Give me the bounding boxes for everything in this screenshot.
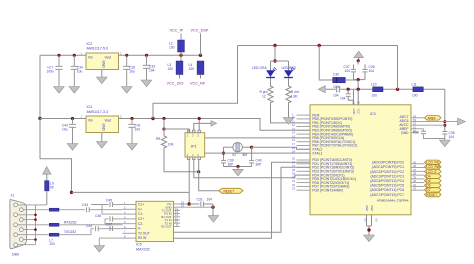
wire AVCC filter to rail	[357, 80, 359, 90]
node AVCC arrow junction	[443, 120, 446, 123]
svg-text:RESET: RESET	[426, 193, 437, 197]
resistor R9 10K pullup	[156, 119, 174, 150]
node LED branch on top loop	[273, 44, 276, 47]
wire C30 branch drop	[319, 46, 333, 81]
capacitor C39 30P	[221, 159, 234, 167]
svg-text:50: 50	[413, 129, 416, 133]
node 3V3 rail riser to top loop	[151, 117, 154, 120]
wire IC4 GND pin	[101, 133, 103, 142]
svg-text:AMS1117-5.0: AMS1117-5.0	[87, 47, 108, 51]
svg-text:30P: 30P	[228, 162, 235, 166]
svg-text:31: 31	[292, 179, 295, 183]
node C31 ground junction	[211, 206, 214, 209]
MCU left stubs port B	[297, 115, 311, 153]
power arrow VCC right	[211, 121, 217, 127]
ground below C31	[208, 216, 219, 223]
svg-text:MAX232: MAX232	[136, 247, 150, 251]
ground below IC4	[97, 142, 108, 149]
node 5V rail bead column	[179, 54, 182, 57]
svg-text:TXD232: TXD232	[64, 230, 76, 234]
power arrow AVCC rail left end	[318, 86, 325, 93]
node row1 input junction C7	[57, 54, 60, 57]
capacitor C37 104	[344, 64, 357, 79]
resistor R5 green LED	[260, 85, 274, 105]
svg-text:32: 32	[292, 183, 295, 187]
svg-text:C44: C44	[86, 224, 92, 228]
capacitor C40 30P	[249, 159, 262, 167]
svg-text:GND: GND	[102, 124, 106, 132]
svg-text:100: 100	[49, 242, 55, 246]
wire MAX232 right stubs	[174, 204, 214, 226]
svg-text:L11: L11	[412, 82, 417, 86]
svg-text:VCC_3V3: VCC_3V3	[167, 82, 184, 86]
svg-text:(ADC3/PCINT11) PC3: (ADC3/PCINT11) PC3	[371, 174, 405, 178]
capacitor C42 10u	[62, 119, 76, 144]
node AVCC pin junction	[443, 124, 446, 127]
resistor R6 red LED	[286, 85, 299, 105]
ground below MCU	[364, 235, 375, 242]
wire DB9 pin stubs	[18, 205, 50, 245]
wire rail right corner down to AVCC pin	[444, 89, 446, 131]
wire JP1 pin1 feed	[164, 129, 189, 133]
svg-text:C43: C43	[82, 203, 88, 207]
inductor bead L6 on DB9 line	[49, 223, 59, 226]
capacitor C46 bridging C2	[95, 214, 123, 224]
regulator IC2 AMS1117-5.0	[81, 42, 123, 70]
wire regulator row2 input	[40, 118, 86, 120]
svg-text:JP1: JP1	[191, 145, 197, 149]
wire DB9 row5 RXD232 to MAX232	[59, 224, 123, 226]
svg-text:52: 52	[357, 101, 360, 105]
svg-text:L10: L10	[371, 82, 377, 86]
svg-text:10u: 10u	[129, 70, 135, 74]
node rail VCC cap branch	[347, 88, 350, 91]
net tag PC4 D5	[425, 179, 442, 184]
wire XTAL2 long route to MCU	[205, 152, 310, 154]
MCU right stubs port C	[411, 164, 425, 190]
svg-text:C30: C30	[333, 73, 339, 77]
svg-text:(ADC7/PCINT15) PC7: (ADC7/PCINT15) PC7	[370, 193, 404, 197]
wire AVCC filter bottom join	[354, 79, 366, 81]
svg-text:T2 OUT: T2 OUT	[138, 231, 150, 235]
svg-text:10K: 10K	[168, 143, 175, 147]
svg-text:10u: 10u	[77, 70, 83, 74]
svg-text:D5: D5	[426, 179, 430, 183]
regulator IC4 AMS1117-3.3	[81, 105, 123, 133]
capacitor C45 bridging C1	[91, 199, 123, 215]
svg-text:GND: GND	[352, 109, 356, 115]
MCU right stubs top group	[411, 118, 458, 133]
wire AVCC rail	[325, 88, 445, 90]
svg-text:16: 16	[292, 138, 295, 142]
svg-text:(ADC6/PCINT14) PC6: (ADC6/PCINT14) PC6	[370, 188, 404, 192]
svg-text:104: 104	[207, 198, 213, 202]
node 5V rail C33	[145, 54, 148, 57]
svg-text:C47: C47	[106, 222, 112, 226]
svg-text:23: 23	[292, 146, 295, 150]
svg-text:104: 104	[149, 69, 155, 73]
node crystal ground	[236, 165, 239, 168]
svg-text:R2 IN: R2 IN	[138, 236, 147, 240]
svg-text:63: 63	[375, 219, 379, 222]
svg-text:R2 OUT: R2 OUT	[161, 225, 172, 229]
wire XTAL1 to MCU	[252, 147, 310, 149]
svg-text:41: 41	[413, 183, 416, 187]
inductor bead L5 on DB9 RXD line	[49, 208, 59, 211]
wire MAX232 row8 to ground	[99, 238, 122, 245]
ground below crystal	[233, 169, 244, 176]
connector J1 DB9	[10, 194, 27, 257]
svg-text:D4: D4	[426, 174, 430, 178]
svg-text:AMS1117-3.3: AMS1117-3.3	[87, 110, 108, 114]
wire crystal caps ground bus	[224, 166, 252, 168]
svg-text:J1: J1	[11, 194, 15, 198]
svg-text:V-: V-	[138, 227, 141, 231]
wire regulator row1 input	[40, 54, 86, 56]
node AVCC filter top	[357, 59, 360, 62]
node row2 input junction	[38, 117, 41, 120]
svg-text:15: 15	[292, 134, 295, 138]
wire crystal ground stem	[237, 167, 239, 170]
ground below C35	[440, 140, 451, 147]
capacitor C36 104	[363, 64, 375, 79]
svg-text:39: 39	[413, 175, 416, 179]
svg-text:ATMEGA64A_TQFP64: ATMEGA64A_TQFP64	[377, 199, 409, 203]
svg-text:40: 40	[413, 179, 416, 183]
svg-text:100: 100	[372, 94, 378, 98]
wire DB9 row7 TXD232	[59, 234, 91, 236]
wire red LED resistor to ground	[288, 104, 290, 117]
ground below C34	[69, 87, 80, 94]
svg-text:IC5: IC5	[136, 243, 142, 247]
svg-text:104: 104	[449, 135, 455, 139]
net tag AREF	[425, 116, 442, 121]
wire top 3V3 loop	[238, 45, 398, 47]
wire regulator row2 output 3V3 rail	[119, 119, 311, 131]
capacitor C44 on TXD line	[86, 224, 123, 231]
capacitor C7 100u	[47, 55, 63, 86]
MCU right pin numbers	[413, 114, 416, 190]
capacitor C32 10u	[123, 55, 135, 86]
node rail AVCC branch	[357, 88, 360, 91]
node 5V rail C32	[125, 54, 128, 57]
svg-text:(ADC1/PCINT9) PC1: (ADC1/PCINT9) PC1	[372, 165, 404, 169]
svg-text:C2+: C2+	[138, 217, 144, 221]
svg-text:Vout: Vout	[105, 56, 112, 60]
power arrow VCC up near DB9	[43, 167, 51, 181]
MCU top pins GND VCC	[352, 89, 361, 114]
capacitor C33 104	[143, 55, 155, 80]
power arrow ADC6 right	[458, 118, 466, 125]
inductor bead L7 on DB9 TXD line	[49, 233, 59, 246]
wire crystal right leg	[251, 147, 253, 160]
node 5V rail VCC_DSP column	[199, 54, 202, 57]
svg-text:Vin: Vin	[88, 119, 93, 123]
svg-text:10: 10	[292, 115, 295, 119]
svg-text:13: 13	[292, 127, 295, 131]
svg-text:37: 37	[413, 168, 416, 172]
wire AVCC filter top split	[357, 61, 359, 65]
wire MAX232 T2IN long route to MCU	[174, 167, 311, 232]
net tag PC6 D7	[425, 188, 442, 193]
svg-text:42: 42	[413, 187, 416, 191]
svg-text:12: 12	[262, 95, 266, 99]
svg-text:36: 36	[413, 164, 416, 168]
svg-text:17: 17	[292, 142, 295, 146]
svg-text:21: 21	[352, 101, 355, 105]
node DB9 bus junctions	[34, 214, 37, 241]
node 3V3 rail pullup resistor	[162, 117, 165, 120]
svg-text:R red: R red	[291, 90, 299, 94]
svg-text:(ADC0/PCINT8) PC0: (ADC0/PCINT8) PC0	[372, 161, 404, 165]
capacitor C31 104 decoupling	[197, 198, 214, 207]
ground below C41	[127, 144, 138, 151]
svg-text:100: 100	[412, 94, 418, 98]
wire JP1 middle top pin to power arrow	[194, 123, 211, 130]
svg-text:104: 104	[345, 69, 351, 73]
ground below C42	[67, 144, 78, 151]
svg-text:33: 33	[292, 187, 295, 191]
crystal X2 8M	[224, 142, 252, 156]
node MCU ground	[367, 228, 370, 231]
wire JP1 middle bottom pin to MCU	[194, 160, 310, 178]
svg-text:27: 27	[292, 164, 295, 168]
svg-text:104: 104	[333, 94, 339, 98]
svg-text:LCD_RS: LCD_RS	[426, 161, 439, 165]
svg-text:1.8K: 1.8K	[291, 95, 299, 99]
IC5 MAX232	[136, 201, 174, 251]
MCU IC3 ATMEGA64A	[310, 105, 411, 215]
svg-text:IC4: IC4	[87, 105, 93, 109]
svg-text:LCD_RW: LCD_RW	[426, 165, 439, 169]
ground below C33	[141, 80, 152, 87]
wire JP1 right bottom pin to RESET tag	[199, 160, 219, 191]
MCU left pin names port B	[312, 113, 357, 155]
svg-text:LCD_E: LCD_E	[426, 170, 436, 174]
svg-text:10u: 10u	[62, 128, 68, 132]
inductor L4 ferrite bead down-right	[189, 61, 204, 79]
wire crystal left leg	[223, 147, 225, 160]
wire MAX232 VCC to C31	[189, 203, 199, 205]
net tag PC3 D4	[425, 174, 442, 179]
svg-text:R grn: R grn	[260, 90, 268, 94]
capacitor C26 104 on AREF	[413, 129, 445, 139]
capacitor C28 104 MCU decoupling	[340, 89, 354, 100]
wire top loop right drop	[397, 46, 399, 90]
svg-text:XTAL1: XTAL1	[312, 151, 322, 155]
svg-text:90: 90	[50, 186, 54, 190]
node 3V3 rail C41	[130, 117, 133, 120]
node crystal right	[250, 146, 253, 149]
inductor L3 ferrite bead down-left	[168, 55, 183, 78]
wire VCC feed path from input rail to MAX232	[40, 119, 72, 193]
ground below MAX232 caps	[94, 246, 105, 253]
svg-text:GND: GND	[102, 61, 106, 69]
LED LED-ORA	[252, 61, 277, 85]
svg-text:53: 53	[413, 118, 416, 122]
net tag PC2 LCD_E	[425, 169, 442, 174]
wire MAX232 R2OUT long route to MCU	[174, 162, 311, 238]
node row1 input junction C34	[73, 54, 76, 57]
svg-text:C45: C45	[106, 199, 112, 203]
svg-text:RXD232: RXD232	[64, 220, 77, 224]
wire JP1 right top pin to rail	[198, 119, 200, 131]
header JP1	[185, 130, 205, 159]
capacitor C35 104 AVCC	[442, 131, 454, 140]
wire vertical joining row1 and row2 inputs	[39, 55, 41, 118]
svg-text:28: 28	[292, 168, 295, 172]
wire DB9 row2 to MAX232	[59, 209, 85, 211]
net tag PC5 D6	[425, 183, 442, 188]
svg-text:30P: 30P	[256, 162, 263, 166]
wire IC2 GND pin	[101, 70, 103, 78]
LED LED-RED	[282, 61, 297, 85]
svg-text:100: 100	[189, 67, 195, 71]
capacitor C34 10u	[71, 55, 83, 86]
svg-text:C1+: C1+	[138, 203, 144, 207]
svg-text:D6: D6	[426, 184, 430, 188]
ground below C7	[54, 87, 65, 94]
wire MAX232 left stubs	[123, 205, 136, 239]
svg-text:VCC_IP: VCC_IP	[170, 29, 184, 33]
svg-text:14: 14	[292, 131, 295, 135]
svg-text:29: 29	[292, 172, 295, 176]
wire VCC_DSP riser	[200, 34, 202, 56]
net tag PC7 RESET2	[425, 192, 442, 197]
inductor L9 bead on DB9 shield	[45, 181, 54, 205]
node VCC wire corner junction	[70, 191, 73, 194]
svg-text:C46: C46	[95, 214, 101, 218]
capacitor C47 on V- line	[106, 222, 113, 231]
MCU right pin names top group	[399, 115, 409, 135]
svg-text:D7: D7	[426, 188, 430, 192]
wire LED anode bus	[271, 60, 289, 62]
wire JP1 left bottom pin to VCC wire	[188, 160, 190, 205]
svg-text:IC3: IC3	[370, 112, 376, 116]
svg-text:104: 104	[369, 69, 375, 73]
node top loop C30 branch	[318, 44, 321, 47]
svg-text:R9: R9	[156, 137, 160, 141]
svg-text:51: 51	[413, 125, 416, 129]
svg-text:100: 100	[169, 46, 175, 50]
capacitor C30 100u tantalum	[333, 73, 359, 89]
svg-text:AREF: AREF	[428, 116, 437, 120]
net tag PC1 LCD_RW	[425, 165, 442, 170]
inductor L10 bead on rail	[371, 82, 383, 97]
node reset net junction	[197, 170, 200, 173]
svg-text:IC2: IC2	[87, 42, 93, 46]
capacitor C41 104	[128, 119, 140, 144]
svg-text:PG0 (PCINT24/WR): PG0 (PCINT24/WR)	[312, 189, 343, 193]
ground below C32	[121, 87, 132, 94]
MCU left stubs port D	[297, 160, 311, 190]
svg-text:GND: GND	[370, 205, 374, 211]
svg-text:GND: GND	[401, 131, 409, 135]
MAX232 pin numbers	[124, 200, 184, 238]
capacitor C43 on V+ line	[82, 203, 123, 212]
MCU left pin names port D	[312, 158, 356, 192]
svg-text:C1-: C1-	[138, 212, 143, 216]
wire pullup bottom to JP1 reset node	[164, 150, 199, 172]
wire TXD jog up to cap row	[91, 229, 94, 235]
svg-text:(ADC4/PCINT12) PC4: (ADC4/PCINT12) PC4	[370, 179, 404, 183]
svg-text:54: 54	[413, 114, 416, 118]
svg-text:104: 104	[340, 97, 346, 101]
power ground arrow up AVCC filter	[354, 51, 364, 61]
svg-text:Vout: Vout	[105, 119, 112, 123]
svg-text:DB9: DB9	[12, 253, 19, 257]
svg-text:(ADC5/PCINT13) PC5: (ADC5/PCINT13) PC5	[370, 184, 404, 188]
ground below IC2	[97, 77, 108, 84]
MCU left pin numbers	[292, 113, 295, 191]
svg-text:62: 62	[364, 219, 368, 222]
svg-text:V+: V+	[138, 207, 142, 211]
node LED pair junction	[273, 59, 276, 62]
node rail top loop junction	[396, 88, 399, 91]
svg-text:LED-ORA: LED-ORA	[252, 66, 267, 70]
svg-text:RESET: RESET	[224, 190, 235, 194]
svg-text:24: 24	[292, 150, 295, 154]
wire regulator row1 output 5V rail	[119, 54, 201, 56]
node crystal left long wire junction	[222, 152, 225, 155]
svg-text:52: 52	[413, 122, 416, 126]
inductor L11 bead on rail right	[412, 82, 424, 97]
svg-text:100: 100	[168, 67, 174, 71]
wire C31 to ground	[212, 204, 214, 216]
svg-text:VCC_RF: VCC_RF	[190, 82, 206, 86]
net tag RESET	[219, 188, 243, 193]
svg-text:VCC_DSP: VCC_DSP	[191, 29, 209, 33]
svg-text:35: 35	[413, 160, 416, 164]
wire green LED resistor to MCU PB pin	[271, 104, 311, 123]
wire unknown route to MCU PB5	[205, 137, 310, 139]
MCU right pin names port C	[370, 161, 404, 197]
node pullup mid junction	[162, 127, 165, 130]
svg-text:25: 25	[292, 157, 295, 161]
svg-text:GND: GND	[365, 205, 369, 211]
svg-text:30: 30	[292, 175, 295, 179]
svg-text:(ADC2/PCINT10) PC2: (ADC2/PCINT10) PC2	[370, 170, 404, 174]
wire LED branch riser	[274, 46, 276, 62]
svg-text:VCC: VCC	[357, 109, 361, 115]
node MAX232 VCC pin junction	[188, 202, 191, 205]
capacitor C29 104 on rail	[333, 86, 340, 97]
svg-text:104: 104	[135, 128, 141, 132]
inductor L2 ferrite bead up	[169, 34, 184, 56]
wire DB9 unused-pin bus	[35, 205, 37, 245]
svg-text:C2-: C2-	[138, 222, 143, 226]
svg-text:100u: 100u	[47, 70, 55, 74]
svg-text:Vin: Vin	[88, 56, 93, 60]
wire VCC horizontal to MAX232	[72, 191, 190, 193]
node row2 C42	[71, 117, 74, 120]
svg-text:38: 38	[413, 172, 416, 176]
wire riser 3V3 to top loop	[153, 46, 238, 119]
ground below red LED resistor	[283, 118, 294, 125]
MCU bottom pins GND	[364, 205, 379, 235]
svg-text:12: 12	[292, 123, 295, 127]
svg-text:C31: C31	[197, 198, 203, 202]
svg-text:26: 26	[292, 160, 295, 164]
net tag PC0 LCD_RS	[425, 160, 442, 165]
node JP1 right top on rail	[198, 117, 201, 120]
node AVCC filter bottom	[357, 78, 360, 81]
